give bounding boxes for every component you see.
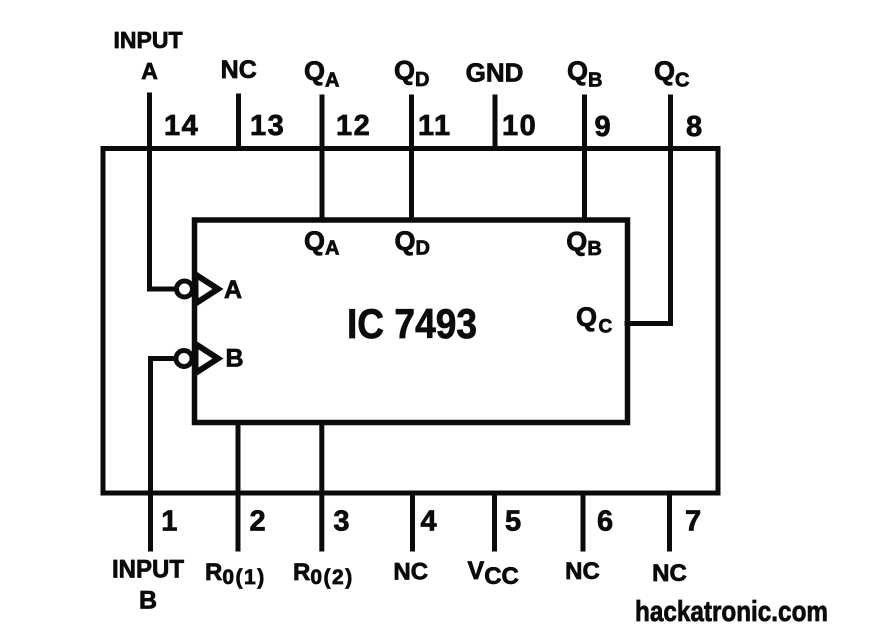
svg-text:11: 11 bbox=[418, 110, 452, 142]
svg-text:8: 8 bbox=[686, 111, 702, 143]
wire pin 13 bbox=[236, 96, 241, 148]
svg-text:QD: QD bbox=[395, 226, 430, 260]
svg-text:B: B bbox=[139, 587, 157, 615]
svg-text:QB: QB bbox=[566, 227, 601, 261]
buffer A triangle bbox=[196, 275, 219, 304]
svg-text:NC: NC bbox=[565, 558, 600, 585]
wire pin 10 bbox=[493, 97, 498, 148]
wire pin 11 to QD bbox=[409, 97, 414, 220]
svg-text:QA: QA bbox=[304, 56, 339, 92]
svg-text:6: 6 bbox=[597, 506, 613, 538]
wire pin 8 to QC output bbox=[627, 97, 671, 324]
svg-text:QB: QB bbox=[567, 56, 602, 92]
IC package outline (outer box) bbox=[103, 149, 718, 494]
svg-text:NC: NC bbox=[652, 560, 687, 587]
svg-text:GND: GND bbox=[466, 58, 524, 88]
wire pin 2 R0(1) bbox=[236, 423, 241, 550]
svg-text:A: A bbox=[141, 58, 158, 84]
svg-text:13: 13 bbox=[250, 110, 285, 142]
svg-text:B: B bbox=[226, 345, 244, 373]
svg-text:R0(2): R0(2) bbox=[293, 559, 354, 589]
IC 7493 logic block (inner box) bbox=[195, 220, 628, 423]
svg-text:2: 2 bbox=[250, 506, 266, 538]
svg-text:A: A bbox=[224, 276, 242, 304]
svg-text:5: 5 bbox=[505, 506, 521, 538]
wire pin 5 bbox=[492, 493, 497, 549]
wire pin 14 to buffer A bbox=[150, 95, 177, 289]
svg-text:INPUT: INPUT bbox=[114, 27, 183, 53]
svg-text:QD: QD bbox=[394, 56, 429, 92]
svg-text:3: 3 bbox=[333, 506, 349, 538]
wire pin 12 to QA bbox=[320, 97, 325, 220]
svg-text:NC: NC bbox=[393, 559, 428, 586]
svg-text:INPUT: INPUT bbox=[112, 556, 184, 584]
buffer B triangle bbox=[196, 344, 219, 373]
wire pin 1 to buffer B bbox=[151, 359, 177, 550]
buffer A input bubble bbox=[177, 281, 193, 297]
svg-text:10: 10 bbox=[502, 110, 537, 142]
svg-text:QA: QA bbox=[304, 226, 339, 260]
svg-text:4: 4 bbox=[421, 506, 437, 538]
wire pin 7 bbox=[667, 493, 672, 549]
svg-text:VCC: VCC bbox=[468, 557, 519, 590]
svg-text:hackatronic.com: hackatronic.com bbox=[635, 596, 828, 628]
buffer B input bubble bbox=[176, 351, 192, 367]
svg-text:QC: QC bbox=[654, 56, 689, 92]
svg-text:QC: QC bbox=[576, 302, 613, 338]
svg-text:12: 12 bbox=[336, 110, 371, 142]
wire pin 4 bbox=[410, 493, 415, 549]
svg-text:NC: NC bbox=[221, 56, 257, 84]
wire pin 9 to QB bbox=[582, 97, 587, 220]
svg-text:R0(1): R0(1) bbox=[205, 559, 266, 589]
wire pin 6 bbox=[581, 493, 586, 549]
svg-text:IC 7493: IC 7493 bbox=[347, 300, 477, 347]
svg-text:7: 7 bbox=[685, 506, 701, 538]
svg-text:1: 1 bbox=[161, 506, 177, 538]
wire pin 3 R0(2) bbox=[319, 423, 324, 550]
svg-text:14: 14 bbox=[164, 110, 199, 142]
svg-text:9: 9 bbox=[595, 111, 611, 143]
